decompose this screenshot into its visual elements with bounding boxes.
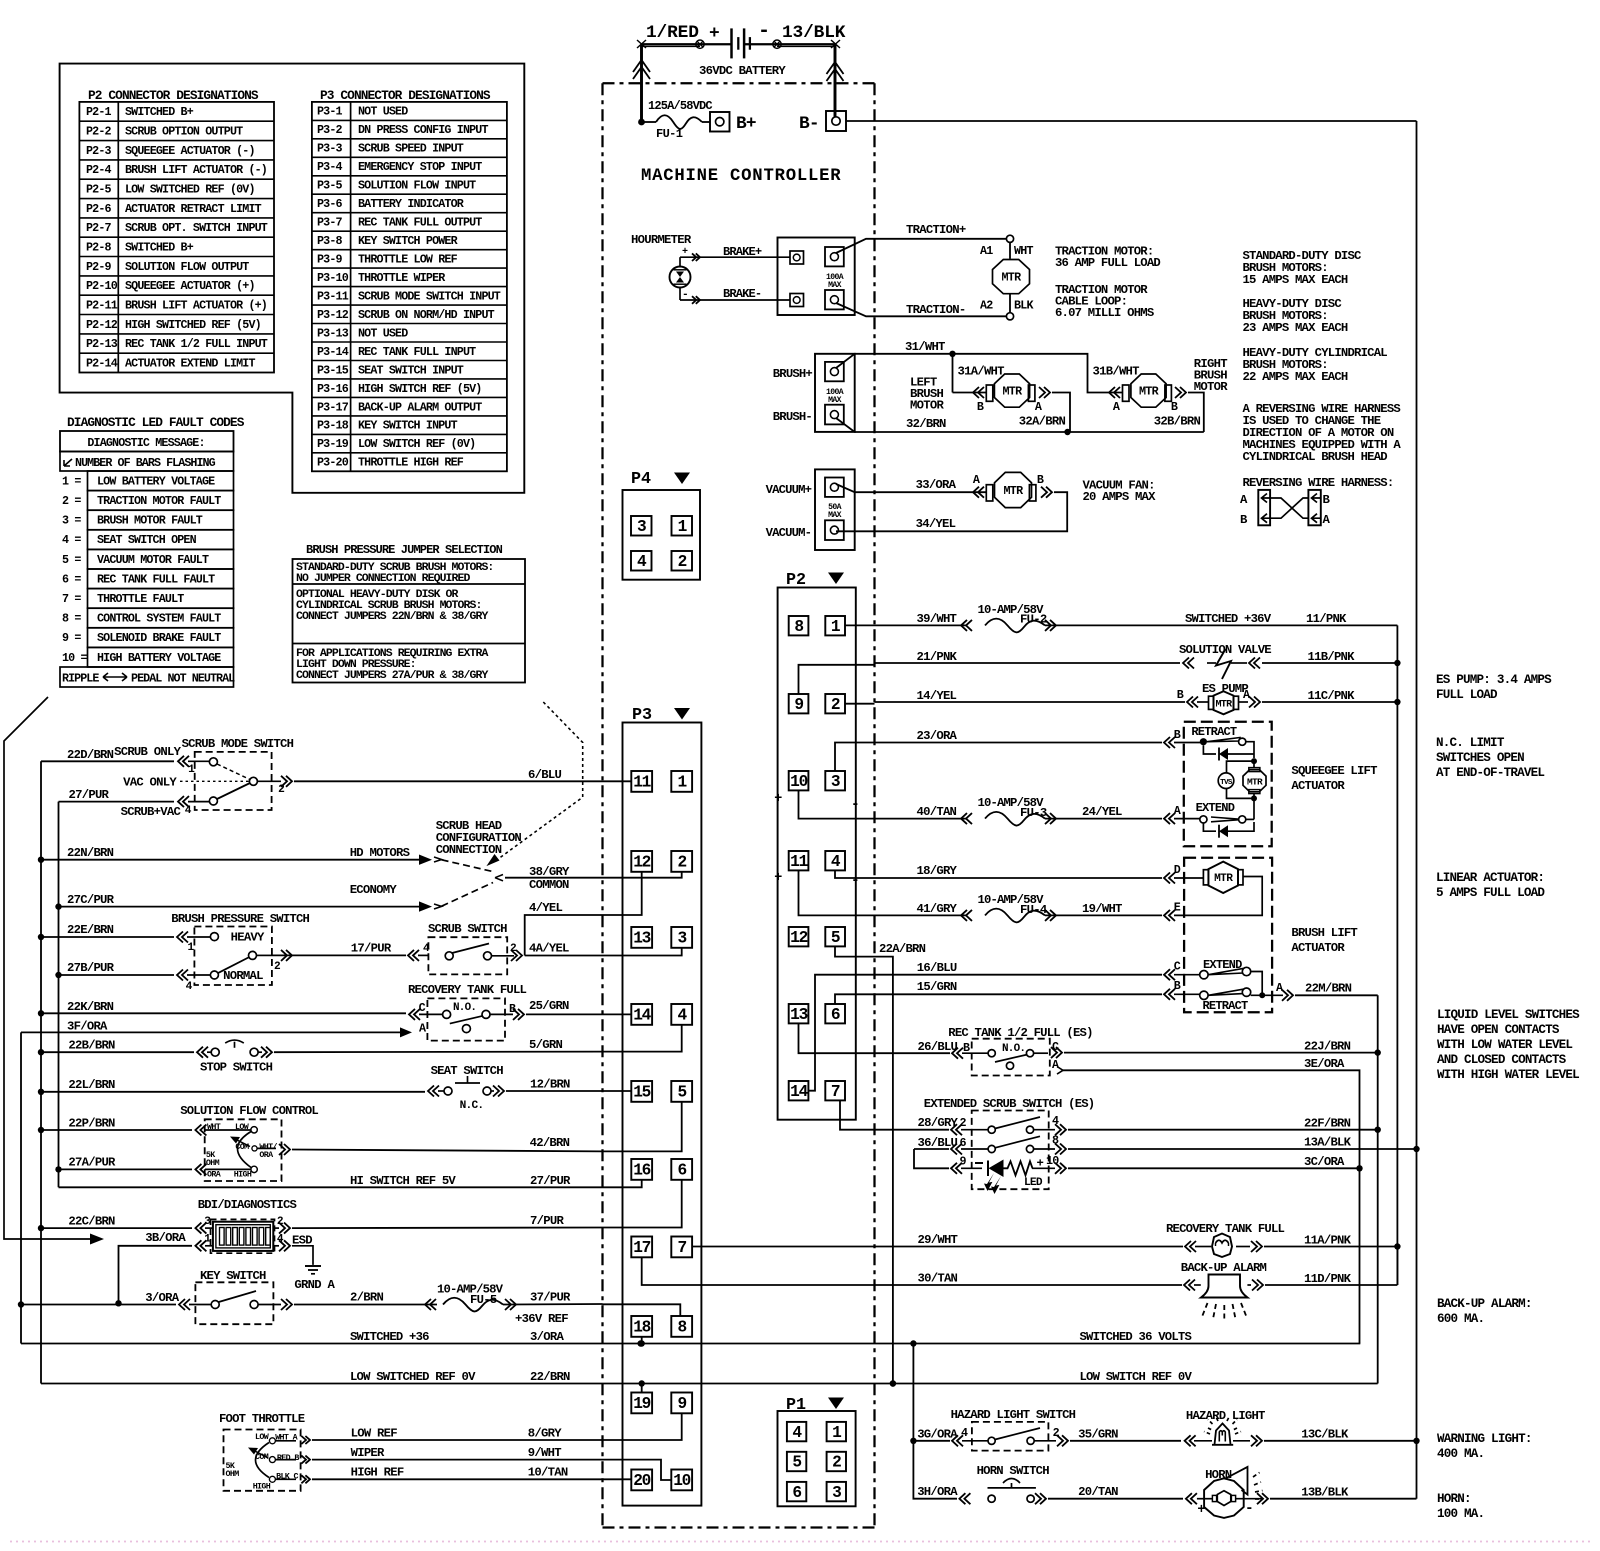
connector P3 pin 3 (671, 927, 692, 948)
svg-text:N.O.: N.O. (453, 1002, 476, 1014)
label 41/GRY (917, 902, 958, 916)
bdi diagnostics led bargraph (211, 1219, 275, 1253)
svg-text:WIPER: WIPER (351, 1446, 385, 1460)
connector P3 pin 20 (631, 1470, 652, 1491)
svg-text:8: 8 (1052, 1134, 1059, 1148)
wire 28/GRY entry 2 (875, 1124, 989, 1135)
table title DIAGNOSTIC LED FAULT CODES (67, 415, 245, 430)
table P3 connector designations grid (312, 102, 507, 471)
connector P2 pin 13 (789, 1004, 809, 1024)
wire HI SWITCH REF 5V 27/PUR (59, 1186, 603, 1188)
label 22F/BRN (1304, 1117, 1351, 1131)
svg-text:22D/BRN: 22D/BRN (67, 748, 114, 762)
connector P3 pin 15 (631, 1081, 652, 1102)
connector P3 pin 19 (631, 1393, 652, 1414)
svg-text:P3-7: P3-7 (317, 216, 343, 230)
svg-text:-: - (1245, 1501, 1253, 1517)
svg-text:CONNECT JUMPERS 27A/PUR & 38/G: CONNECT JUMPERS 27A/PUR & 38/GRY (296, 669, 488, 682)
solution valve symbol (1216, 649, 1231, 679)
jumper note standard-duty (296, 561, 493, 585)
wire P3 pin 10 riser WIPER (603, 1460, 672, 1480)
label fuse FU-5 10-AMP/58V (437, 1283, 504, 1308)
svg-text:P3-15: P3-15 (317, 363, 349, 377)
svg-text:-: - (682, 289, 688, 301)
svg-text:1/RED: 1/RED (646, 23, 699, 43)
svg-text:P4: P4 (631, 470, 651, 489)
wire P3 pin 4 riser 5/GRN (603, 1025, 682, 1052)
svg-text:14: 14 (790, 1083, 808, 1101)
diagnostic row 7 = THROTTLE FAULT (62, 589, 234, 609)
svg-text:P3-18: P3-18 (317, 419, 349, 433)
label 19/WHT (1082, 902, 1122, 916)
scrub head config fork ECONOMY (434, 883, 493, 910)
svg-text:KEY SWITCH POWER: KEY SWITCH POWER (358, 234, 459, 248)
wire 31/WHT (836, 351, 1122, 393)
label BRAKE+ (723, 245, 762, 259)
svg-text:P3-12: P3-12 (317, 308, 349, 322)
label 26/BLU (918, 1040, 958, 1054)
svg-text:MTR: MTR (1214, 873, 1233, 885)
table row P3-1 NOT USED (317, 105, 408, 119)
svg-text:27A/PUR: 27A/PUR (68, 1156, 116, 1170)
polarity - near P2 pin 3 (851, 797, 859, 813)
label B brush lift (1174, 979, 1181, 993)
svg-text:P2-11: P2-11 (86, 299, 118, 313)
svg-text:REC TANK FULL FAULT: REC TANK FULL FAULT (97, 572, 215, 586)
brush lift extend switch (1200, 967, 1251, 979)
hazard light beacon symbol (1185, 1416, 1420, 1446)
label 6/BLU (528, 768, 561, 782)
wire 35/GRN out 2 (1034, 1435, 1181, 1446)
svg-text:10 =: 10 = (62, 651, 88, 665)
svg-text:NO JUMPER CONNECTION REQUIRED: NO JUMPER CONNECTION REQUIRED (296, 572, 471, 585)
svg-text:8: 8 (677, 1319, 686, 1337)
scrub head config connection point (495, 875, 503, 881)
label 22E/BRN (67, 923, 114, 937)
svg-text:SOLUTION FLOW CONTROL: SOLUTION FLOW CONTROL (180, 1104, 318, 1118)
wire 23/ORA squeegee retract (875, 737, 1203, 748)
svg-text:BRUSH+: BRUSH+ (773, 367, 813, 381)
seat switch symbol (444, 1076, 491, 1112)
svg-text:6: 6 (960, 1136, 967, 1150)
svg-text:+: + (774, 792, 782, 807)
wire LOW REF 8/GRY (275, 1436, 602, 1444)
wire P3 pin 2 riser 38/GRY (603, 872, 682, 878)
svg-text:ACTUATOR: ACTUATOR (1291, 941, 1345, 955)
svg-text:P2-3: P2-3 (86, 144, 112, 158)
svg-text:REVERSING WIRE HARNESS:: REVERSING WIRE HARNESS: (1243, 476, 1394, 490)
label 2 brush pressure (274, 961, 281, 973)
wire P2 pin 1 exit (845, 624, 875, 626)
svg-text:+: + (682, 247, 688, 258)
wire P3 pin 11 entry 6/BLU (603, 780, 632, 782)
svg-text:22A/BRN: 22A/BRN (879, 942, 926, 956)
battery 36VDC (646, 20, 846, 78)
label 17/PUR (351, 942, 392, 956)
label 24/YEL (1082, 805, 1122, 819)
label 4 hazard (961, 1426, 968, 1440)
svg-text:22F/BRN: 22F/BRN (1304, 1117, 1351, 1131)
wire 22M/BRN brush lift A out (1251, 990, 1378, 1001)
wire 22K/BRN (41, 1009, 443, 1020)
label 42/BRN (530, 1136, 570, 1150)
svg-text:WITH HIGH WATER LEVEL: WITH HIGH WATER LEVEL (1437, 1068, 1579, 1082)
wire 21/PNK solution valve (875, 658, 1398, 669)
wire P3 pin 7 exit 29/WHT (692, 1246, 874, 1248)
label RECOVERY TANK FULL right (1166, 1222, 1285, 1236)
table title P2 CONNECTOR DESIGNATIONS (88, 88, 259, 103)
label RIGHT BRUSH MOTOR (1194, 357, 1228, 394)
svg-text:ACTUATOR EXTEND LIMIT: ACTUATOR EXTEND LIMIT (125, 357, 255, 371)
connector P3 pin 17 (631, 1237, 652, 1258)
svg-text:TRACTION+: TRACTION+ (906, 223, 966, 237)
wire switched36 hazard-horn bus (910, 1344, 957, 1499)
svg-text:27C/PUR: 27C/PUR (67, 893, 115, 907)
scrub switch contacts (445, 944, 491, 960)
wire hourmeter to BRAKE+ (680, 247, 790, 267)
label 16/BLU (917, 961, 957, 975)
svg-text:HD MOTORS: HD MOTORS (350, 846, 410, 860)
hazard light switch contacts (988, 1428, 1040, 1444)
svg-text:SWITCHED +36: SWITCHED +36 (350, 1330, 429, 1344)
wire 3G/ORA entry 4 (913, 1435, 988, 1446)
svg-text:9 =: 9 = (62, 631, 81, 645)
svg-text:10: 10 (1046, 1154, 1059, 1168)
svg-text:24/YEL: 24/YEL (1082, 805, 1122, 819)
svg-text:HEAVY: HEAVY (231, 931, 265, 945)
machine controller dashed box (603, 83, 875, 1527)
diagnostic row 4 = SEAT SWITCH OPEN (62, 530, 234, 550)
terminal B- (799, 111, 846, 134)
svg-text:9: 9 (960, 1155, 967, 1169)
label fuse FU-3 10-AMP/58V (978, 796, 1047, 820)
label HAZARD LIGHT SWITCH (951, 1408, 1076, 1422)
connector P2 pin 10 (789, 771, 809, 791)
svg-text:P3-11: P3-11 (317, 289, 349, 303)
svg-text:BRAKE+: BRAKE+ (723, 245, 762, 259)
wire 22C/BRN bdi 3 (41, 1223, 213, 1234)
label 22K/BRN (67, 1000, 114, 1014)
brush terminal box (815, 354, 855, 432)
wire P2 pin 6 riser 15/GRN (835, 994, 875, 1004)
wire 3E/ORA out A (1057, 1067, 1363, 1344)
note standard-duty disc brush motors (1243, 249, 1363, 287)
svg-text:1 =: 1 = (62, 474, 81, 488)
svg-text:3: 3 (677, 930, 686, 948)
reversing wire harness symbol (1240, 490, 1331, 527)
wire P2 pin 9 riser (799, 665, 875, 694)
note BACK-UP ALARM 600 MA (1437, 1297, 1532, 1326)
wire P3 pin 12 riser 4/YEL (603, 872, 642, 915)
wire 4/YEL from scrub switch (525, 915, 603, 956)
svg-text:B: B (977, 400, 984, 414)
label 3E/ORA (1304, 1057, 1345, 1071)
label 3/ORA switched (530, 1330, 564, 1344)
label 4 bdi (277, 1234, 284, 1246)
svg-text:B+: B+ (736, 114, 756, 134)
svg-text:2: 2 (832, 1454, 841, 1472)
label 4A/YEL (529, 942, 569, 956)
diagnostic row 6 = REC TANK FULL FAULT (62, 569, 234, 589)
svg-text:9: 9 (794, 696, 803, 714)
wire P3 pin 5 riser 42/BRN (603, 1102, 682, 1152)
label VACUUM- (766, 526, 812, 540)
connector P2 pin 3 (825, 771, 845, 791)
wire 4A/YEL scrub switch out (491, 950, 602, 961)
svg-text:HIGH: HIGH (234, 1170, 252, 1180)
connector P2 pin 1 (825, 616, 845, 636)
svg-text:CONNECT JUMPERS 22N/BRN & 38/G: CONNECT JUMPERS 22N/BRN & 38/GRY (296, 610, 488, 623)
svg-text:SQUEEGEE LIFT: SQUEEGEE LIFT (1291, 764, 1377, 778)
svg-text:LOW: LOW (235, 1122, 249, 1132)
table row P3-6 BATTERY INDICATOR (317, 197, 465, 211)
label EXTEND brush lift (1203, 958, 1242, 972)
label 22A/BRN (879, 942, 926, 956)
leader arrow from fault codes table to BDI (4, 697, 104, 1245)
brush terminal BRUSH- side (825, 405, 844, 425)
table title P3 CONNECTOR DESIGNATIONS (320, 88, 491, 103)
label BRUSH+ (773, 367, 813, 381)
ground GRND A (294, 1266, 335, 1292)
svg-text:HAZARD LIGHT SWITCH: HAZARD LIGHT SWITCH (951, 1408, 1076, 1422)
connector P2 label (786, 571, 844, 590)
table row P2-8 SWITCHED B+ (86, 241, 194, 255)
svg-text:P3-16: P3-16 (317, 382, 349, 396)
label RETRACT brush lift (1203, 999, 1249, 1013)
brush terminal BRUSH+ side (825, 362, 844, 381)
svg-text:N.C.: N.C. (460, 1100, 484, 1112)
wire 22E/BRN heavy (41, 932, 211, 943)
svg-text:13A/BLK: 13A/BLK (1304, 1136, 1352, 1150)
svg-text:11C/PNK: 11C/PNK (1308, 689, 1356, 703)
wire left bus BRN x41 (38, 761, 44, 1383)
table row P2-14 ACTUATOR EXTEND LIMIT (86, 357, 255, 371)
table row P2-11 BRUSH LIFT ACTUATOR (+) (86, 299, 267, 313)
svg-text:B: B (1174, 979, 1181, 993)
svg-text:LOW SWITCH REF (0V): LOW SWITCH REF (0V) (358, 437, 475, 451)
svg-text:P3-6: P3-6 (317, 197, 343, 211)
wire 40/TAN fuse FU-3 24/YEL squeegee extend (875, 812, 1201, 826)
svg-text:GRND A: GRND A (294, 1278, 335, 1292)
svg-text:12: 12 (633, 854, 650, 872)
svg-text:38/GRY: 38/GRY (529, 865, 570, 879)
label SEAT SWITCH (431, 1064, 504, 1078)
svg-text:EXTEND: EXTEND (1196, 801, 1235, 815)
page border dotted (10, 1541, 1590, 1543)
polarity - near P2 pin 4 (851, 873, 859, 889)
connector P1 pin 6 (787, 1482, 806, 1502)
wire P2 pin 5 riser 22A/BRN (835, 946, 875, 956)
wire 14/YEL ES pump (875, 697, 1398, 708)
diagnostic row 9 = SOLENOID BRAKE FAULT (62, 628, 234, 648)
svg-text:VAC ONLY: VAC ONLY (123, 776, 177, 790)
wire P2 pin 13 riser 26/BLU (799, 1023, 875, 1053)
label COMMON (529, 878, 569, 892)
solution flow control box (205, 1119, 282, 1181)
label 30/TAN (918, 1272, 958, 1286)
svg-text:RED B: RED B (277, 1453, 299, 1463)
wire P2 pin 10 riser (799, 790, 875, 818)
svg-text:BRUSH MOTOR FAULT: BRUSH MOTOR FAULT (97, 514, 203, 528)
svg-text:ACTUATOR RETRACT LIMIT: ACTUATOR RETRACT LIMIT (125, 202, 262, 216)
label 22D/BRN (67, 748, 114, 762)
wire 3F/ORA (21, 1027, 412, 1037)
svg-text:42/BRN: 42/BRN (530, 1136, 570, 1150)
svg-text:SOLUTION FLOW OUTPUT: SOLUTION FLOW OUTPUT (125, 260, 249, 274)
label HD MOTORS (350, 846, 410, 860)
svg-text:22L/BRN: 22L/BRN (68, 1078, 115, 1092)
wire 27B/PUR normal (59, 970, 211, 981)
svg-text:FU-4: FU-4 (1020, 903, 1047, 917)
label 40/TAN (917, 805, 957, 819)
label EXTEND squeegee (1196, 801, 1235, 815)
label 100A MAX traction (826, 273, 844, 290)
svg-text:-: - (851, 873, 859, 889)
svg-text:3: 3 (832, 1484, 841, 1502)
svg-text:ACTUATOR: ACTUATOR (1291, 779, 1345, 793)
svg-text:BRUSH-: BRUSH- (773, 410, 812, 424)
svg-text:P1: P1 (786, 1396, 806, 1415)
svg-text:P3 CONNECTOR DESIGNATIONS: P3 CONNECTOR DESIGNATIONS (320, 88, 491, 103)
label BRAKE- (723, 287, 761, 301)
svg-text:22P/BRN: 22P/BRN (68, 1117, 115, 1131)
svg-text:NOT USED: NOT USED (358, 105, 408, 119)
wire 32/BRN (836, 418, 1204, 435)
svg-text:32B/BRN: 32B/BRN (1154, 415, 1201, 429)
diagnostic row 1 = LOW BATTERY VOLTAGE (62, 471, 234, 491)
svg-text:2: 2 (678, 553, 687, 571)
svg-text:P3-10: P3-10 (317, 271, 349, 285)
svg-text:+: + (1197, 1503, 1205, 1518)
label D brush lift (1174, 863, 1181, 877)
wire back-up alarm (875, 1247, 1398, 1291)
label SCRUB ONLY (114, 745, 181, 759)
label SQUEEGEE LIFT ACTUATOR (1291, 764, 1377, 793)
svg-text:15 AMPS MAX EACH: 15 AMPS MAX EACH (1243, 273, 1348, 287)
connector P3 box (623, 723, 702, 1506)
wire 2/BRN key switch out fuse FU-5 (258, 1298, 603, 1312)
wire 22L/BRN seat switch 12/BRN (41, 1086, 603, 1097)
svg-text:P3-17: P3-17 (317, 400, 349, 414)
polarity + near P2 pin 10 (774, 792, 782, 807)
svg-text:31A/WHT: 31A/WHT (958, 365, 1005, 379)
svg-text:11B/PNK: 11B/PNK (1308, 650, 1356, 664)
svg-text:19: 19 (633, 1395, 650, 1413)
wire 22J/BRN out C (1034, 1047, 1378, 1058)
label BRUSH LIFT ACTUATOR (1291, 926, 1357, 955)
label HIGH REF (351, 1466, 404, 1480)
svg-text:4: 4 (961, 1426, 968, 1440)
table row P3-7 REC TANK FULL OUTPUT (317, 216, 482, 230)
svg-text:8: 8 (794, 618, 803, 636)
label LOW REF (351, 1427, 398, 1441)
svg-text:SCRUB ONLY: SCRUB ONLY (114, 745, 181, 759)
wire 3/ORA key switch (21, 1299, 211, 1310)
label 7/PUR (530, 1214, 564, 1228)
label EXTENDED SCRUB SWITCH (ES) (924, 1097, 1095, 1111)
svg-text:32/BRN: 32/BRN (906, 417, 946, 431)
label 32B/BRN (1154, 415, 1201, 429)
connector P2 pin 14 (789, 1081, 809, 1101)
label RETRACT squeegee (1191, 725, 1237, 739)
svg-text:VACUUM-: VACUUM- (766, 526, 812, 540)
svg-text:HIGH SWITCHED REF (5V): HIGH SWITCHED REF (5V) (125, 318, 261, 332)
note VACUUM FAN 20 AMPS MAX (1083, 479, 1157, 505)
svg-text:SEAT SWITCH: SEAT SWITCH (431, 1064, 504, 1078)
connector P3 pin 6 (671, 1159, 692, 1180)
table row P3-10 THROTTLE WIPER (317, 271, 446, 285)
wire P3 pin 17 riser 30/TAN (642, 1257, 875, 1285)
wire 22B/BRN stop switch 5/GRN (41, 1047, 603, 1058)
label SCRUB+VAC (121, 805, 182, 819)
svg-text:TRACTION MOTOR FAULT: TRACTION MOTOR FAULT (97, 494, 221, 508)
foot throttle box (224, 1430, 301, 1491)
wire SWITCHED 36 VOLTS (21, 1340, 1360, 1346)
svg-text:P2-12: P2-12 (86, 318, 118, 332)
svg-text:WHT: WHT (207, 1122, 221, 1132)
wire 18/GRY brush lift motor D (875, 873, 1204, 884)
label 2 scrub mode (278, 784, 285, 796)
svg-text:+36V REF: +36V REF (515, 1312, 568, 1326)
svg-text:ES PUMP: 3.4 AMPS: ES PUMP: 3.4 AMPS (1436, 673, 1552, 687)
label BACK-UP ALARM (1181, 1261, 1267, 1275)
svg-text:SCRUB SPEED INPUT: SCRUB SPEED INPUT (358, 142, 464, 156)
svg-text:N.O.: N.O. (1002, 1043, 1025, 1055)
svg-text:P2 CONNECTOR DESIGNATIONS: P2 CONNECTOR DESIGNATIONS (88, 88, 259, 103)
traction motor MTR U-traction (993, 260, 1030, 294)
svg-text:8 =: 8 = (62, 612, 81, 626)
traction output terminal A2 side (825, 290, 844, 309)
label fuse FU-2 10-AMP/58V (978, 603, 1047, 627)
svg-text:35/GRN: 35/GRN (1078, 1428, 1118, 1442)
svg-text:N.C. LIMIT: N.C. LIMIT (1436, 736, 1505, 750)
svg-text:HIGH BATTERY VOLTAGE: HIGH BATTERY VOLTAGE (97, 651, 221, 665)
table row P2-5 LOW SWITCHED REF (0V) (86, 183, 255, 197)
svg-text:7 =: 7 = (62, 592, 81, 606)
label A squeegee (1174, 804, 1182, 818)
svg-text:-: - (758, 20, 769, 43)
wire P2 pin 7 riser 28/GRY (840, 1100, 875, 1129)
wire right bus 22M/BRN vertical (1375, 995, 1381, 1383)
label B rec tank (963, 1041, 970, 1055)
svg-text:SWITCHED +36V: SWITCHED +36V (1185, 612, 1272, 626)
wire 42/BRN wiper out (257, 1144, 603, 1155)
connector P1 box (778, 1411, 856, 1506)
svg-text:4/YEL: 4/YEL (529, 901, 562, 915)
label 3B/ORA (145, 1231, 186, 1245)
svg-text:5 =: 5 = (62, 553, 81, 567)
svg-text:5: 5 (792, 1454, 801, 1472)
label 23/ORA (917, 729, 958, 743)
extended scrub switch box (972, 1111, 1049, 1190)
svg-text:+: + (709, 24, 719, 44)
svg-text:2: 2 (960, 1116, 967, 1130)
svg-text:HAVE OPEN CONTACTS: HAVE OPEN CONTACTS (1437, 1023, 1560, 1037)
label 22B/BRN (68, 1039, 115, 1053)
wire WIPER 9/WHT (275, 1456, 602, 1464)
svg-text:3: 3 (831, 773, 840, 791)
diagnostic row 3 = BRUSH MOTOR FAULT (62, 510, 234, 530)
wire vacuum motor B loop 34/YEL (836, 492, 1067, 531)
svg-text:17/PUR: 17/PUR (351, 942, 392, 956)
table row P3-13 NOT USED (317, 326, 408, 340)
svg-text:SWITCHES OPEN: SWITCHES OPEN (1436, 751, 1524, 765)
wire P2 pin 2 exit (845, 703, 875, 705)
svg-text:B-: B- (799, 114, 819, 134)
wire 7/PUR bdi out (273, 1223, 602, 1234)
svg-text:5: 5 (831, 929, 840, 947)
connector P4 pin 1 (672, 516, 693, 536)
